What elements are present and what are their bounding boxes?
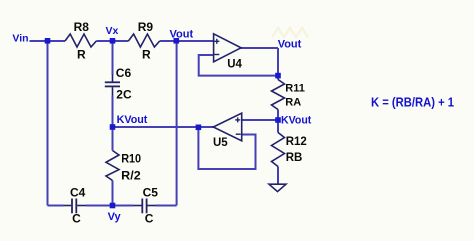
svg-text:U4: U4	[227, 58, 242, 70]
capacitor C4	[64, 185, 86, 225]
svg-text:R10: R10	[121, 151, 141, 165]
node Vout top	[174, 38, 180, 44]
node KVout divider	[275, 117, 281, 123]
node U5 output junction	[196, 125, 202, 131]
svg-text:Vin: Vin	[12, 32, 28, 44]
wire R10 to Vy	[112, 181, 114, 206]
op-amp U4	[214, 34, 243, 71]
op-amp U5	[213, 113, 242, 149]
svg-text:Vout: Vout	[170, 28, 194, 40]
wire KVout node to R12	[277, 120, 279, 133]
svg-text:KVout: KVout	[117, 114, 148, 126]
resistor R11	[272, 80, 305, 110]
wire U5 feedback loop	[198, 127, 255, 169]
svg-text:C6: C6	[116, 66, 132, 80]
wire KVout horizontal to U5 output	[113, 126, 214, 128]
svg-text:2C: 2C	[116, 88, 132, 102]
resistor R10	[106, 151, 141, 183]
resistor R12	[272, 133, 307, 167]
svg-text:KVout: KVout	[281, 114, 312, 126]
ground	[269, 184, 286, 191]
node Vx	[110, 38, 116, 44]
svg-text:R: R	[77, 47, 86, 61]
svg-text:Vout: Vout	[278, 39, 302, 51]
svg-text:Vy: Vy	[108, 211, 122, 223]
wire U4 output down to node	[277, 48, 279, 76]
svg-text:R: R	[142, 47, 151, 61]
wire R12 to ground	[277, 167, 279, 185]
wire R8 to R9 (through Vx)	[96, 40, 128, 42]
svg-text:U5: U5	[213, 137, 228, 149]
node U4 output junction	[275, 73, 281, 79]
svg-text:R/2: R/2	[121, 168, 141, 182]
wire C6 to R10 (through KVout)	[112, 96, 114, 151]
svg-text:RA: RA	[285, 97, 301, 109]
resistor R9	[128, 20, 159, 61]
wire U4 output horizontal	[241, 47, 279, 49]
wire R9 to U4 + input	[160, 40, 214, 42]
svg-text:C5: C5	[143, 185, 159, 199]
wire R11 to KVout node	[277, 110, 279, 121]
faint erased-symbol artifact	[272, 28, 308, 37]
wire left column Vin down	[47, 41, 49, 206]
svg-text:RB: RB	[286, 152, 303, 164]
node Vy	[110, 203, 116, 209]
svg-text:C: C	[72, 212, 81, 226]
resistor R8	[65, 20, 96, 61]
wire C4 to C5 (through Vy)	[86, 205, 134, 207]
svg-text:R11: R11	[285, 82, 305, 94]
node KVout left	[110, 124, 116, 130]
svg-text:R9: R9	[138, 20, 154, 34]
svg-text:K = (RB/RA) + 1: K = (RB/RA) + 1	[371, 96, 454, 110]
svg-text:C: C	[145, 212, 154, 226]
node Vin junction	[45, 38, 51, 44]
wire right column up to Vout	[176, 41, 178, 206]
wire C5 to bottom right corner	[156, 205, 177, 207]
svg-text:R8: R8	[74, 20, 90, 34]
wire U5 + input to KVout node	[242, 119, 278, 121]
wire bottom left to C4	[48, 205, 65, 207]
svg-text:Vx: Vx	[106, 25, 119, 37]
svg-text:R12: R12	[286, 136, 307, 148]
capacitor C5	[134, 185, 159, 225]
wire U4 feedback from - input	[199, 55, 278, 76]
wire node to R11	[277, 76, 279, 80]
capacitor C6	[105, 66, 132, 102]
svg-text:C4: C4	[70, 185, 86, 199]
wire Vin to R8	[30, 40, 66, 42]
wire Vx down to C6	[112, 41, 114, 75]
